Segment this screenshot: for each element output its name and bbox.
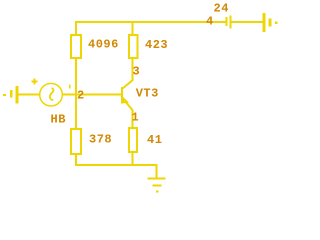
wire column A middle bbox=[75, 58, 77, 129]
wire battery to right terminal bbox=[232, 21, 263, 23]
svg-text:4096: 4096 bbox=[88, 38, 119, 52]
battery C1 bbox=[225, 16, 231, 29]
wire bottom rail bbox=[75, 164, 158, 166]
wire emitter vertical bbox=[132, 110, 134, 128]
wire collector vertical bbox=[132, 58, 134, 81]
resistor R1 4096 bbox=[71, 35, 81, 58]
wire source to base bbox=[63, 94, 122, 96]
svg-text:3: 3 bbox=[133, 65, 140, 79]
svg-text:HB: HB bbox=[51, 112, 66, 126]
source HB circle bbox=[40, 83, 63, 106]
svg-text:2: 2 bbox=[77, 89, 84, 103]
wire emitter column lower bbox=[132, 152, 134, 165]
svg-text:24: 24 bbox=[214, 2, 229, 16]
resistor R2 378 bbox=[71, 129, 81, 154]
wire column A lower bbox=[75, 154, 77, 165]
resistor R3 423 bbox=[129, 35, 138, 58]
ground bbox=[148, 179, 166, 192]
svg-text:VT3: VT3 bbox=[136, 87, 159, 101]
prime tick mark bbox=[69, 85, 71, 89]
svg-text:4: 4 bbox=[206, 15, 213, 29]
wire top rail bbox=[75, 21, 226, 23]
plus mark bbox=[32, 79, 38, 85]
resistor R4 41 bbox=[129, 128, 137, 152]
svg-text:423: 423 bbox=[145, 38, 168, 52]
wire left terminal to source bbox=[19, 94, 41, 96]
svg-text:41: 41 bbox=[147, 133, 162, 147]
wire column B upper stem bbox=[132, 21, 134, 35]
transistor VT3 bbox=[121, 81, 133, 111]
terminal port right bbox=[263, 13, 278, 32]
terminal port left bbox=[3, 86, 19, 104]
wire column A upper bbox=[75, 21, 77, 35]
wire ground stem bbox=[155, 164, 157, 179]
svg-text:1: 1 bbox=[132, 111, 139, 125]
svg-text:378: 378 bbox=[89, 133, 112, 147]
